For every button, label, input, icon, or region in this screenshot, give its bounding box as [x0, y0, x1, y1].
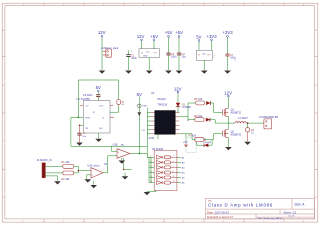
power flag 5V (reg2 in) [196, 35, 201, 42]
pin stub [80, 105, 84, 107]
junction [247, 122, 249, 124]
power flag 5V (555) [96, 85, 101, 92]
power flag +3V3 (cap C7) [223, 30, 234, 37]
svg-text:R2 10k: R2 10k [62, 178, 71, 181]
svg-text:8: 8 [173, 171, 174, 173]
555 vcc stub [110, 104, 113, 106]
svg-text:IRLB8721: IRLB8721 [231, 133, 242, 136]
svg-text:12V: 12V [137, 34, 145, 39]
svg-text:2: 2 [173, 156, 174, 158]
ground [85, 179, 92, 182]
svg-text:-: - [118, 156, 119, 159]
ground [54, 181, 61, 184]
ground (opamp V-) [90, 185, 97, 188]
svg-text:VI: VI [198, 55, 200, 57]
svg-text:5V: 5V [196, 35, 201, 40]
555 out stub [110, 116, 114, 118]
svg-text:J4 SPEAKER 8R: J4 SPEAKER 8R [259, 116, 278, 119]
svg-text:5V: 5V [121, 144, 124, 147]
regulator U6 [196, 50, 215, 60]
svg-text:100n: 100n [171, 55, 177, 58]
U5 gnd pin wire [147, 191, 156, 192]
svg-text:12V: 12V [224, 90, 232, 95]
diode D1 [176, 103, 192, 109]
svg-text:12: 12 [173, 181, 175, 183]
svg-text:VO: VO [154, 53, 157, 55]
svg-text:+5V: +5V [150, 34, 158, 39]
svg-text:12V: 12V [174, 86, 182, 91]
wire [101, 37, 103, 70]
wire comparator out [130, 108, 148, 154]
ground [125, 71, 132, 74]
svg-text:4: 4 [173, 161, 174, 163]
svg-text:+5V: +5V [165, 30, 173, 35]
connector J1 barrel jack [101, 46, 119, 57]
junction [78, 170, 80, 172]
svg-text:TPA3116: TPA3116 [158, 104, 168, 107]
svg-text:KiCad E.D.A. kicad 4.0.7: KiCad E.D.A. kicad 4.0.7 [207, 216, 234, 219]
capacitor C4 [83, 94, 100, 101]
svg-text:VO: VO [207, 55, 210, 57]
power flag +3V3 (reg2 out) [207, 34, 218, 41]
bus from IC right [179, 103, 188, 121]
svg-text:TR: TR [85, 128, 88, 130]
regulator U2 7805 [131, 49, 159, 58]
ground [244, 142, 251, 145]
wire sleeve to gnd [45, 176, 57, 181]
wire +in from triangle wave [112, 146, 118, 151]
transistor Q2 [222, 129, 228, 137]
power flag +5V (cap C3) [175, 30, 183, 37]
resistor R6 [188, 115, 204, 122]
timing loop wire [78, 80, 118, 117]
wire to inverter inputs [147, 153, 151, 182]
hex inverter U5 box [154, 150, 177, 190]
power flag 12V (bootstrap) [174, 86, 182, 93]
wire R4 to DIS pin [110, 105, 119, 113]
svg-text:U3B: U3B [113, 143, 118, 146]
capacitor C3 [177, 37, 186, 70]
svg-text:R7 10k: R7 10k [189, 135, 197, 138]
resistor R5 [188, 98, 204, 105]
svg-text:10: 10 [173, 176, 175, 178]
svg-text:9: 9 [150, 171, 151, 173]
junction [78, 117, 80, 119]
gate input bus [147, 153, 154, 182]
svg-text:Id: 1/1: Id: 1/1 [289, 216, 296, 218]
svg-text:Size: A: Size: A [295, 202, 306, 206]
wires into left pins [147, 112, 151, 133]
wire timing node to comparator [71, 145, 147, 147]
svg-text:Sheet: 1/1: Sheet: 1/1 [284, 210, 297, 214]
svg-text:-: - [92, 170, 93, 173]
wire ring [45, 172, 62, 174]
inverter gates with series resistors [157, 155, 177, 184]
ground [201, 71, 208, 74]
svg-text:Date: 2017-06-03: Date: 2017-06-03 [207, 210, 229, 214]
svg-text:U3A LM358: U3A LM358 [87, 165, 100, 168]
IC U4 body [155, 111, 175, 135]
ground [76, 143, 83, 146]
capacitor C1 [126, 50, 137, 70]
ground [146, 71, 153, 74]
diode D5 antiparallel [197, 139, 213, 147]
svg-text:R1 10k: R1 10k [62, 161, 71, 164]
svg-text:+3V3: +3V3 [223, 30, 234, 35]
svg-text:J3 AUDIO_IN: J3 AUDIO_IN [37, 159, 52, 162]
svg-text:+5V: +5V [183, 140, 188, 144]
svg-text:1: 1 [150, 156, 151, 158]
svg-text:COM: COM [149, 138, 154, 140]
svg-text:IRLB8721: IRLB8721 [231, 111, 242, 114]
svg-text:Class D Amp with LM386: Class D Amp with LM386 [208, 203, 273, 208]
ground [99, 71, 106, 74]
svg-text:+3V3: +3V3 [207, 34, 218, 39]
IC U4 COM stub [157, 134, 159, 139]
power flag 12V (Q1 drain) [224, 90, 232, 97]
sheet note box [186, 138, 196, 153]
inductor L1 [228, 117, 264, 123]
IC U4 right pins [175, 112, 179, 133]
wire [148, 58, 150, 71]
wire 5V down to comparator output net [138, 97, 140, 154]
wire Q1 source to Q2 drain [227, 116, 229, 129]
wire 555 gnd [98, 133, 100, 138]
svg-text:VCC: VCC [99, 106, 104, 108]
svg-text:GND: GND [143, 56, 148, 58]
svg-text:U1 TLC555: U1 TLC555 [77, 97, 91, 101]
divider ref wire [124, 158, 132, 169]
svg-text:13: 13 [150, 181, 152, 183]
capacitor C7 [225, 37, 236, 70]
svg-text:5V: 5V [96, 85, 101, 90]
op-amp U3A [87, 165, 103, 178]
wire join [74, 166, 91, 173]
wire +in to gnd [87, 175, 92, 179]
svg-text:100u: 100u [131, 57, 137, 60]
connector J3 audio jack [37, 159, 52, 178]
svg-text:3: 3 [150, 161, 151, 163]
svg-text:C4 100n: C4 100n [83, 94, 93, 97]
ground [144, 192, 151, 195]
diode D3 [206, 118, 210, 122]
resistor R2 [62, 171, 74, 181]
svg-text:5V: 5V [137, 92, 142, 97]
junction [139, 153, 141, 155]
capacitor C2 [166, 37, 177, 70]
svg-text:Q: Q [102, 117, 104, 119]
pin numbers [150, 156, 174, 183]
timer U1 TLC555 [77, 97, 111, 133]
ground [224, 71, 231, 74]
wire to Q1 gate [210, 103, 222, 112]
junction [79, 124, 81, 126]
wire tip [45, 165, 62, 167]
svg-text:THR: THR [85, 117, 90, 119]
svg-text:R5 100: R5 100 [194, 98, 203, 101]
wire opamp out up [103, 156, 117, 173]
ground [225, 147, 232, 150]
output net labels [182, 156, 185, 184]
svg-text:10u: 10u [182, 55, 187, 58]
svg-text:+5V: +5V [175, 30, 183, 35]
svg-text:IR2110: IR2110 [158, 97, 167, 101]
wire [97, 92, 99, 95]
svg-text:1N4148: 1N4148 [182, 106, 191, 109]
power flag +5V (cap C2) [165, 30, 173, 37]
wire THR pin + timing node [71, 116, 83, 118]
resistor R4 (vertical) [117, 100, 125, 107]
ground [165, 71, 172, 74]
capacitor C9 (polarized) [245, 123, 254, 141]
power flag +5V (reg out) [150, 34, 158, 40]
gate output stubs [177, 157, 181, 182]
wire CV pin [80, 124, 84, 126]
transistor Q1 [222, 108, 228, 116]
svg-text:5: 5 [150, 166, 151, 168]
power arrow symbol [138, 112, 142, 116]
svg-text:11: 11 [150, 176, 152, 178]
power flag 12V (input) [98, 30, 106, 37]
svg-text:DIS: DIS [99, 128, 103, 130]
title block [205, 198, 314, 219]
ground [95, 139, 102, 142]
ground (comparator) [119, 161, 126, 164]
wire IC LO pin [179, 134, 195, 142]
svg-text:6: 6 [173, 166, 174, 168]
IC U4 left pins [151, 112, 155, 133]
connector J4 speaker [259, 116, 278, 129]
wire [141, 41, 143, 49]
comparator U3B [113, 143, 130, 158]
svg-text:CV: CV [85, 106, 89, 108]
svg-text:PWR: PWR [143, 106, 148, 108]
diode D2 [206, 101, 210, 105]
resistor R7 [189, 135, 205, 142]
wire Q2 source to gnd [227, 137, 229, 146]
wire [153, 41, 155, 49]
capacitor C5 [77, 125, 86, 142]
PWR_FLAG circle [138, 104, 142, 108]
ground (ref) [122, 176, 129, 179]
resistor R1 [62, 161, 74, 168]
svg-text:U4: U4 [151, 91, 155, 95]
svg-text:12V: 12V [98, 30, 106, 35]
wire to Q2 gate [204, 134, 222, 140]
power flag 12V (reg in) [137, 34, 145, 40]
svg-text:File: ClassD_amp_386.sch: File: ClassD_amp_386.sch [258, 218, 284, 220]
ground [176, 71, 183, 74]
wire to output node [210, 120, 228, 124]
svg-text:L1 33uH: L1 33uH [238, 117, 248, 120]
junction [123, 169, 125, 171]
